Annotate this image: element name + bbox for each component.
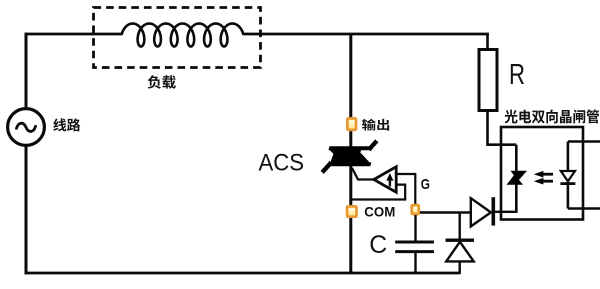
dashed enclosure around load [94,8,261,68]
AC source 线路 (line) [8,109,45,146]
text 负载 [148,75,176,89]
light arrows [543,174,553,181]
text 线路 [53,118,80,131]
terminal 输出 (output) [347,118,356,129]
wire: bottom bus [25,272,460,275]
arrow inside buffer [389,178,391,187]
phototriac lead [515,145,518,213]
inductor L1 coil (load) [122,24,244,47]
svg-text:G: G [421,177,430,193]
wire: resistor to phototriac top [488,111,517,145]
diode D1 series (cathode bar) [491,197,495,225]
svg-text:R: R [509,59,525,91]
terminal COM [347,206,356,216]
svg-text:C: C [369,232,387,259]
wire: clamp diode to bottom bus [459,261,461,274]
svg-text:COM: COM [364,205,395,220]
LED lead + symbol [567,142,570,209]
wire: LED top to right edge [568,140,600,143]
text 输出 [362,119,389,131]
wire: top bus down to resistor [486,34,489,50]
gate buffer triangle [374,167,396,192]
optocoupler box [501,127,583,220]
triac ACS (AC switch) symbol [322,141,377,173]
wire: middle vertical (ACS main) [349,34,352,273]
diode D2 clamp (triangle, pointing up) [446,242,474,262]
terminal G [412,205,419,214]
wire: top bus from source to load [25,33,122,36]
wire: left vertical upper (source to top bus) [25,33,28,109]
wire: buffer return to COM rail [351,185,405,200]
wire: series diode to phototriac bottom [493,211,516,213]
capacitor C plates [395,241,434,244]
wire: G node down to capacitor [414,215,416,242]
diode D1 series (triangle, pointing right) [471,198,491,226]
svg-text:ACS: ACS [259,150,305,177]
phototriac symbol (filled) [507,171,528,185]
wire: LED bottom to right edge [568,207,600,210]
wire: capacitor to bottom bus [414,252,416,274]
diode D2 clamp (cathode bar) [446,238,475,241]
wire: junction down to clamp diode [459,213,461,241]
wire: top bus from load to resistor / mid tap [244,33,489,36]
wire: G node to series diode [420,211,471,213]
wire: buffer apex to triac terminal [352,168,375,180]
text 光电双向晶闸管 [505,109,600,123]
resistor R body [479,50,497,111]
wire: buffer output to G node [396,174,415,205]
wire: left vertical lower (source to bottom bus) [25,146,28,275]
